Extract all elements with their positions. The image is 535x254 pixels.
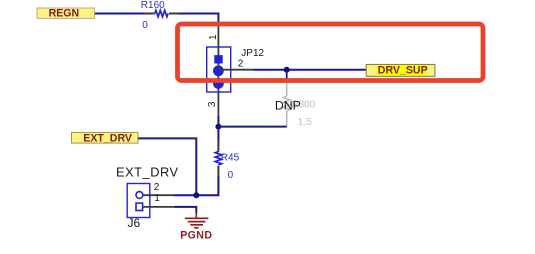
resistor R160 pin lead right	[169, 13, 179, 15]
svg-text:R45: R45	[221, 153, 240, 164]
resistor R300 DNP (grayed)	[283, 79, 315, 128]
wire JP12 pin 2 to DRV_SUP	[253, 69, 367, 71]
svg-text:1: 1	[208, 34, 219, 40]
svg-text:DNP: DNP	[275, 98, 301, 112]
wire junction down to R300	[286, 70, 288, 80]
wire R45 to J6 pin 2 net	[196, 176, 218, 195]
jumper JP12 body	[207, 47, 265, 92]
jumper JP12 pin 2 lead	[218, 69, 252, 71]
svg-text:R160: R160	[141, 0, 165, 11]
wire EXT_DRV to junction	[138, 138, 196, 195]
red highlight box	[178, 24, 484, 81]
svg-text:2: 2	[238, 59, 244, 70]
svg-text:J6: J6	[128, 216, 141, 230]
wire junction down to R45	[217, 127, 219, 142]
wire junction to R300 bottom	[218, 126, 286, 128]
junction node at DRV_SUP tap	[284, 67, 290, 73]
junction node at J6 pin 2	[193, 192, 199, 198]
wire J6 pin 1 to ground	[175, 207, 197, 214]
junction node below JP12 pin 3	[215, 124, 221, 130]
svg-text:DRV_SUP: DRV_SUP	[378, 65, 428, 77]
wire junction to J6 pin 2	[174, 194, 196, 196]
resistor R160 pin lead left	[145, 13, 155, 15]
ground PGND	[180, 212, 212, 242]
connector J6 pin 1 lead	[143, 206, 175, 208]
wire R160 to JP12 pin 1	[179, 14, 219, 25]
resistor R160 body	[141, 0, 168, 31]
svg-text:0: 0	[228, 170, 234, 181]
svg-text:1: 1	[154, 193, 160, 204]
resistor R45 body	[215, 152, 239, 182]
svg-text:EXT_DRV: EXT_DRV	[83, 133, 132, 145]
svg-text:PGND: PGND	[180, 230, 212, 242]
jumper JP12 pin 1 lead (vertical through symbol)	[217, 24, 219, 116]
wire REGN to R160	[95, 13, 145, 15]
svg-text:0: 0	[142, 20, 148, 31]
svg-text:3: 3	[207, 101, 218, 107]
connector J6 pin 2 lead	[143, 194, 175, 196]
connector J6 body	[116, 164, 179, 230]
power port EXT_DRV	[72, 133, 139, 145]
wire JP12 pin 3 to junction	[217, 116, 219, 127]
svg-text:2: 2	[154, 182, 160, 193]
power port REGN	[37, 8, 95, 20]
svg-text:1.5: 1.5	[298, 117, 312, 128]
svg-text:JP12: JP12	[241, 48, 264, 59]
resistor R45 pin lead bottom	[217, 166, 219, 177]
resistor R45 pin lead top	[217, 141, 219, 152]
power port DRV_SUP	[366, 64, 435, 76]
svg-text:EXT_DRV: EXT_DRV	[116, 164, 179, 179]
svg-text:REGN: REGN	[49, 8, 80, 20]
